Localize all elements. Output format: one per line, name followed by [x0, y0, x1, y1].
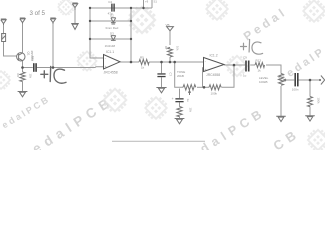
- svg-text:VB: VB: [166, 23, 170, 27]
- svg-text:C4: C4: [108, 0, 112, 4]
- svg-text:D2: D2: [110, 13, 114, 17]
- svg-text:JRC4558: JRC4558: [206, 73, 220, 77]
- svg-text:1k: 1k: [258, 68, 262, 72]
- svg-text:1u: 1u: [186, 99, 190, 103]
- svg-text:R13: R13: [256, 59, 262, 63]
- svg-text:IC1.2: IC1.2: [210, 54, 218, 58]
- svg-text:+9: +9: [145, 0, 149, 3]
- svg-text:100k: 100k: [211, 92, 218, 96]
- svg-text:10k: 10k: [189, 108, 193, 113]
- svg-text:C9: C9: [243, 56, 247, 60]
- svg-text:IC1.1: IC1.1: [106, 50, 114, 54]
- svg-text:C7: C7: [169, 73, 173, 77]
- svg-text:100n: 100n: [292, 88, 299, 92]
- svg-text:100k: 100k: [317, 98, 321, 105]
- svg-text:S1: S1: [154, 0, 158, 3]
- svg-text:20kB: 20kB: [177, 74, 184, 78]
- svg-text:R7: R7: [164, 46, 168, 50]
- svg-text:R5: R5: [140, 55, 144, 59]
- svg-text:1k: 1k: [141, 65, 145, 69]
- svg-text:1N4148: 1N4148: [105, 44, 116, 48]
- svg-text:D3: D3: [110, 31, 114, 35]
- svg-text:1M: 1M: [0, 34, 4, 39]
- svg-text:1u: 1u: [243, 73, 247, 77]
- svg-text:3mm Red: 3mm Red: [105, 26, 118, 30]
- svg-text:10k: 10k: [29, 74, 33, 79]
- svg-text:100kB: 100kB: [259, 80, 268, 84]
- svg-text:Q1: Q1: [27, 52, 31, 56]
- svg-text:+: +: [172, 97, 174, 101]
- svg-text:3 of 5: 3 of 5: [30, 10, 46, 17]
- svg-text:10n: 10n: [31, 56, 35, 61]
- svg-text:10k: 10k: [176, 46, 180, 51]
- svg-text:R2: R2: [16, 74, 20, 78]
- svg-text:JRC4558: JRC4558: [104, 71, 118, 75]
